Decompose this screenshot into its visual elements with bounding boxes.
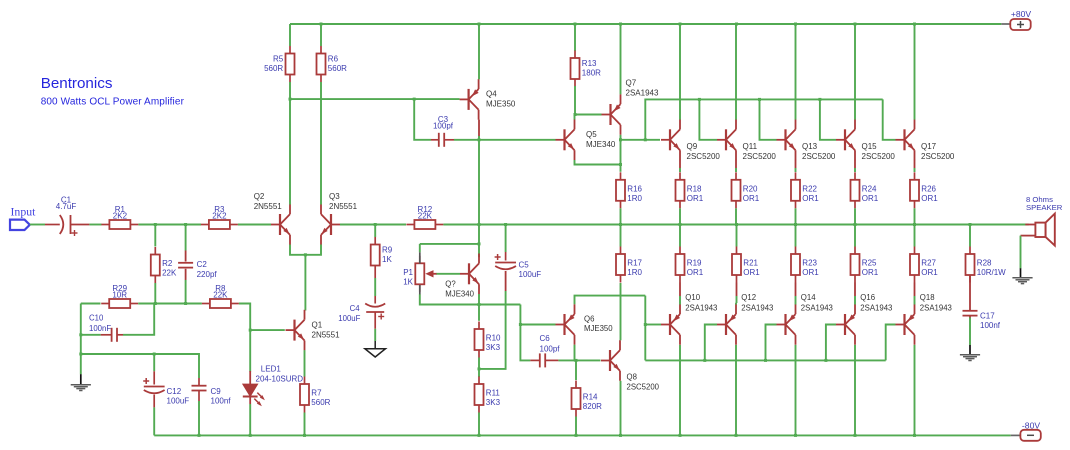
transistor Q11 bbox=[717, 120, 776, 161]
wire C3 left bbox=[414, 99, 431, 140]
wire Q17 emitter bbox=[914, 168, 916, 172]
wire Q16 emitter bbox=[854, 303, 856, 305]
wire Q6 collector bbox=[575, 345, 577, 361]
wire Q8 emitter bbox=[620, 381, 622, 436]
wire to Q4 base bbox=[290, 98, 460, 100]
svg-text:100uF: 100uF bbox=[338, 314, 360, 323]
capacitor C6 leads bbox=[530, 359, 558, 361]
wire Q11 emitter res bottom bbox=[735, 208, 737, 224]
wire R25 top bbox=[854, 225, 856, 247]
wire R10 bottom bbox=[478, 358, 480, 369]
svg-text:C2: C2 bbox=[197, 260, 208, 269]
svg-text:3K3: 3K3 bbox=[486, 343, 501, 352]
wire R12 to VAS node bbox=[443, 224, 479, 226]
svg-text:Q9: Q9 bbox=[687, 142, 698, 151]
junction bottom rail LED bbox=[249, 434, 252, 437]
wire P1 top lead bbox=[419, 244, 421, 252]
wire LED column bbox=[249, 330, 251, 371]
wire C10 left bbox=[80, 304, 82, 335]
capacitor C5 bbox=[495, 254, 542, 279]
svg-text:100nf: 100nf bbox=[211, 397, 232, 406]
svg-text:OR1: OR1 bbox=[743, 268, 760, 277]
junction top rail Q11 collector bbox=[735, 23, 738, 26]
wire Q16 collector bbox=[854, 345, 856, 436]
capacitor C5 top lead red bbox=[505, 252, 507, 261]
wire P1 top bbox=[420, 243, 479, 245]
svg-text:1K: 1K bbox=[382, 255, 392, 264]
svg-text:100pf: 100pf bbox=[433, 122, 454, 131]
wire Q15 emitter bbox=[854, 168, 856, 172]
junction bottom rail C9 bbox=[198, 434, 201, 437]
wire R17 top bbox=[620, 225, 622, 247]
junction bottom rail R7 bbox=[303, 434, 306, 437]
label Q12 bbox=[741, 293, 773, 313]
svg-text:1R0: 1R0 bbox=[627, 268, 642, 277]
wire C5 top bbox=[505, 225, 507, 253]
wire R10 top bbox=[478, 305, 480, 321]
svg-text:2SA1943: 2SA1943 bbox=[741, 304, 773, 313]
wire R3 to Q2 base bbox=[238, 224, 271, 226]
junction output rail R20 R21 bbox=[735, 223, 738, 226]
junction R9 top bbox=[374, 223, 377, 226]
label Q6 bbox=[584, 315, 613, 333]
junction lower bias rail Q16 bbox=[824, 359, 827, 362]
svg-text:R27: R27 bbox=[921, 259, 936, 268]
transistor Q10 bbox=[661, 304, 680, 345]
junction Q10 base bbox=[644, 323, 647, 326]
wire R21 bottom red bbox=[736, 283, 738, 297]
capacitor C9 top lead red bbox=[198, 378, 200, 386]
wire R25 bottom red bbox=[854, 283, 856, 297]
speaker SP1 bbox=[1026, 195, 1063, 246]
wire gnd to C12 C9 bbox=[81, 354, 199, 378]
svg-text:Q15: Q15 bbox=[862, 142, 878, 151]
wire Q12 emitter bbox=[735, 303, 737, 305]
junction output rail R16 R17 bbox=[619, 223, 622, 226]
wire C1 to R1 bbox=[89, 224, 101, 226]
wire R14 top bbox=[575, 360, 577, 380]
svg-text:MJE340: MJE340 bbox=[586, 140, 616, 149]
svg-text:C6: C6 bbox=[540, 334, 551, 343]
wire base riser Q18 bbox=[886, 325, 896, 361]
junction bottom rail Q14 bbox=[794, 434, 797, 437]
wire R7 to bottom rail bbox=[304, 413, 306, 436]
svg-text:OR1: OR1 bbox=[687, 194, 704, 203]
resistor R1 bbox=[101, 205, 138, 229]
wire Q3 collector bbox=[320, 99, 322, 204]
svg-text:R10: R10 bbox=[486, 334, 501, 343]
svg-text:Q5: Q5 bbox=[586, 130, 597, 139]
transistor Q14 bbox=[777, 304, 796, 345]
capacitor C5 bottom lead red bbox=[505, 271, 507, 291]
junction emitter join bbox=[304, 253, 307, 256]
svg-text:R14: R14 bbox=[583, 393, 598, 402]
wire Q3 base to R12 bbox=[340, 224, 406, 226]
capacitor C4 top lead red bbox=[374, 296, 376, 304]
svg-text:R17: R17 bbox=[627, 259, 642, 268]
transistor Q7 bias bbox=[460, 254, 479, 295]
wire Q10 emitter bbox=[679, 303, 681, 305]
P1 bottom pin gray bbox=[419, 285, 421, 295]
svg-text:2SC5200: 2SC5200 bbox=[687, 152, 721, 161]
capacitor C2 top lead red bbox=[185, 251, 187, 262]
capacitor C3 bbox=[433, 115, 454, 147]
resistor R22 bbox=[791, 172, 819, 208]
junction Q5 emitter join bbox=[619, 163, 622, 166]
resistor R12 bbox=[406, 205, 443, 229]
svg-text:Q4: Q4 bbox=[486, 90, 497, 99]
junction bottom rail Q10 bbox=[679, 434, 682, 437]
wire Q15 emitter res bottom bbox=[854, 208, 856, 224]
svg-text:R26: R26 bbox=[921, 185, 936, 194]
capacitor C17 bbox=[963, 311, 1001, 330]
wire R27 bottom red bbox=[914, 283, 916, 297]
input port bbox=[10, 205, 36, 231]
junction R5 bottom bbox=[289, 98, 292, 101]
junction bottom rail R11 bbox=[478, 434, 481, 437]
ground C17 bbox=[960, 355, 980, 361]
label Q8 bbox=[627, 373, 660, 392]
wire Q9 base bbox=[621, 139, 661, 141]
wire C5 bottom bbox=[479, 291, 506, 369]
wire Q10 collector bbox=[679, 345, 681, 436]
junction output rail R18 R19 bbox=[679, 223, 682, 226]
resistor R14 bbox=[572, 381, 603, 417]
wire C17 to ground bbox=[969, 318, 971, 346]
svg-text:Q6: Q6 bbox=[584, 315, 594, 324]
junction top rail Q9 collector bbox=[679, 23, 682, 26]
junction bias rail Q15 bbox=[818, 98, 821, 101]
transistor Q7 driver bbox=[602, 79, 659, 135]
svg-text:800 Watts OCL Power Amplifier: 800 Watts OCL Power Amplifier bbox=[41, 97, 185, 108]
svg-text:Q14: Q14 bbox=[801, 293, 816, 302]
resistor R11 bbox=[475, 377, 501, 413]
capacitor C2 bottom lead red bbox=[185, 269, 187, 280]
wire speaker to ground bbox=[1020, 236, 1022, 269]
transistor Q8 bbox=[601, 340, 620, 381]
junction lower bias rail Q14 bbox=[764, 359, 767, 362]
svg-text:22K: 22K bbox=[213, 291, 228, 300]
transistor Q5 bbox=[556, 120, 616, 161]
svg-text:2N5551: 2N5551 bbox=[254, 202, 283, 211]
junction top rail Q13 collector bbox=[794, 23, 797, 26]
wire R27 top bbox=[914, 225, 916, 247]
capacitor C12 top lead red bbox=[153, 371, 155, 384]
wire Q6 emitter bbox=[575, 296, 646, 305]
svg-text:R19: R19 bbox=[687, 259, 702, 268]
wire R13 node to Q7 base bbox=[575, 114, 602, 116]
resistor R13 bbox=[571, 51, 602, 87]
svg-text:100pf: 100pf bbox=[540, 345, 561, 354]
svg-text:R11: R11 bbox=[486, 389, 501, 398]
wire Q11 collector bbox=[735, 24, 737, 120]
wire C6 left bbox=[520, 325, 530, 361]
svg-text:1R0: 1R0 bbox=[627, 194, 642, 203]
wire Q13 emitter bbox=[795, 168, 797, 172]
label C6 bbox=[540, 334, 561, 354]
svg-text:Q16: Q16 bbox=[860, 293, 875, 302]
wire R11 top bbox=[478, 369, 480, 377]
junction VAS top bbox=[478, 138, 481, 141]
svg-text:Q12: Q12 bbox=[741, 293, 756, 302]
svg-text:2SC5200: 2SC5200 bbox=[627, 383, 660, 392]
svg-text:Q17: Q17 bbox=[921, 142, 937, 151]
svg-text:2SC5200: 2SC5200 bbox=[802, 152, 836, 161]
svg-text:2K2: 2K2 bbox=[212, 212, 227, 221]
svg-text:R7: R7 bbox=[311, 389, 322, 398]
transistor Q3 bbox=[321, 192, 358, 245]
svg-text:560R: 560R bbox=[311, 398, 330, 407]
svg-text:R25: R25 bbox=[862, 259, 877, 268]
top rail +80V bbox=[290, 23, 1001, 25]
wire R6 bottom bbox=[320, 82, 322, 99]
resistor R29 bbox=[101, 284, 138, 308]
transistor Q2 bbox=[254, 192, 290, 245]
svg-text:Q3: Q3 bbox=[329, 192, 340, 201]
wire C2 top lead bbox=[185, 225, 187, 251]
junction R13 Q5 collector bbox=[574, 113, 577, 116]
svg-text:OR1: OR1 bbox=[862, 194, 879, 203]
wire Q18 emitter bbox=[914, 303, 916, 305]
svg-text:100uF: 100uF bbox=[167, 397, 190, 406]
wire base drop Q17 bbox=[883, 99, 896, 139]
svg-text:2K2: 2K2 bbox=[113, 212, 128, 221]
svg-text:2SA1943: 2SA1943 bbox=[626, 89, 659, 98]
wire Q14 emitter bbox=[795, 303, 797, 305]
svg-text:OR1: OR1 bbox=[687, 268, 704, 277]
wire to Q6 base bbox=[520, 305, 555, 325]
wire R21 bottom bbox=[736, 296, 738, 303]
wire base riser Q14 bbox=[766, 325, 777, 361]
capacitor C12 bbox=[143, 378, 189, 406]
capacitor C17 bottom lead red bbox=[969, 316, 971, 319]
resistor R19 bbox=[676, 247, 704, 283]
wire base riser Q16 bbox=[826, 325, 836, 361]
svg-text:1K: 1K bbox=[403, 277, 413, 286]
label C10 bbox=[89, 314, 111, 334]
wire Q4 collector down bbox=[478, 136, 480, 140]
junction output rail R24 R25 bbox=[854, 223, 857, 226]
wire C12 to bottom rail bbox=[153, 407, 155, 435]
svg-text:10R/1W: 10R/1W bbox=[977, 268, 1006, 277]
junction bottom rail Q8 emitter bbox=[619, 434, 622, 437]
svg-text:R28: R28 bbox=[977, 259, 992, 268]
wire Q10 base riser bbox=[644, 296, 646, 361]
wire Q1 emitter to R7 bbox=[304, 350, 306, 376]
power -80V bbox=[1011, 420, 1041, 441]
svg-text:OR1: OR1 bbox=[921, 268, 938, 277]
svg-text:Input: Input bbox=[11, 205, 37, 219]
capacitor C10 leads bbox=[101, 334, 123, 336]
svg-text:3K3: 3K3 bbox=[486, 398, 501, 407]
label C4 bbox=[338, 304, 360, 323]
junction P1 top tap bbox=[478, 242, 481, 245]
svg-text:2SA1943: 2SA1943 bbox=[685, 304, 717, 313]
wire R19 top bbox=[679, 225, 681, 247]
transistor Q16 bbox=[836, 304, 855, 345]
wire ground column top bbox=[81, 303, 101, 305]
svg-text:R22: R22 bbox=[802, 185, 817, 194]
wire C10 right to R2 node bbox=[123, 304, 154, 335]
junction C2 bottom bbox=[184, 302, 187, 305]
wire Q13 collector bbox=[795, 24, 797, 120]
wire Q18 collector bbox=[914, 345, 916, 436]
wire Q15 emitter red pin bbox=[854, 160, 856, 168]
title bbox=[41, 75, 185, 108]
capacitor C2 bbox=[178, 260, 217, 279]
capacitor C6 bbox=[540, 353, 545, 367]
wire Q9 emitter res bottom bbox=[679, 208, 681, 224]
junction R2 bottom bbox=[154, 302, 157, 305]
junction C3 tap bbox=[413, 98, 416, 101]
resistor R5 bbox=[264, 46, 294, 82]
capacitor C4 bbox=[365, 304, 385, 320]
wire R28 to C17 red bbox=[969, 275, 971, 310]
resistor R6 bbox=[317, 46, 348, 82]
svg-text:2SA1943: 2SA1943 bbox=[801, 304, 833, 313]
wire R9 top bbox=[374, 225, 376, 238]
wire base drop Q13 bbox=[760, 99, 777, 139]
junction bottom rail Q12 bbox=[735, 434, 738, 437]
svg-text:Q8: Q8 bbox=[627, 373, 637, 382]
transistor Q1 bbox=[286, 310, 341, 351]
wire C6 right bbox=[558, 359, 600, 361]
transistor Q15 bbox=[836, 120, 895, 161]
junction lower bias rail Q12 bbox=[703, 359, 706, 362]
speaker pins bbox=[1021, 225, 1036, 236]
svg-text:OR1: OR1 bbox=[921, 194, 938, 203]
label Q18 bbox=[920, 293, 952, 313]
svg-text:Q7: Q7 bbox=[626, 79, 637, 88]
svg-text:560R: 560R bbox=[328, 64, 347, 73]
transistor Q17 bbox=[896, 120, 955, 161]
wire R28 top bbox=[969, 225, 971, 247]
junction output rail R28 top bbox=[969, 223, 972, 226]
wire Q14 collector bbox=[795, 345, 797, 436]
wire C2 bottom lead bbox=[185, 280, 187, 304]
signal ground triangle bbox=[365, 341, 386, 357]
junction top rail R13 top bbox=[574, 23, 577, 26]
wire Q13 emitter res bottom bbox=[795, 208, 797, 224]
resistor R16 bbox=[616, 172, 643, 208]
junction output rail C5 top bbox=[504, 223, 507, 226]
transistor Q18 bbox=[896, 304, 915, 345]
wire Q4 collector red pin bbox=[478, 120, 480, 137]
label Q14 bbox=[801, 293, 833, 313]
bottom rail -80V bbox=[154, 434, 1011, 436]
wire P1 bottom bbox=[420, 294, 521, 304]
wire R23 top bbox=[795, 225, 797, 247]
wire tail to Q1 bbox=[304, 255, 306, 311]
svg-text:C10: C10 bbox=[89, 314, 104, 323]
capacitor C4 bottom lead red bbox=[374, 312, 376, 329]
resistor R27 bbox=[910, 247, 938, 283]
junction Q9 base tap bbox=[619, 138, 622, 141]
wire input to C1 bbox=[30, 224, 45, 226]
svg-text:SPEAKER: SPEAKER bbox=[1026, 203, 1063, 212]
transistor Q12 bbox=[717, 304, 736, 345]
resistor R7 bbox=[300, 377, 331, 413]
wire Q13 emitter red pin bbox=[795, 160, 797, 168]
svg-text:C17: C17 bbox=[980, 312, 995, 321]
wire R5 top bbox=[289, 24, 291, 46]
junction bias rail drop Q9 bbox=[644, 138, 647, 141]
lower bias rail bbox=[645, 359, 885, 361]
wire Q2 collector bbox=[289, 99, 291, 204]
label Q10 bbox=[685, 293, 717, 313]
wire Q1 base bbox=[250, 329, 285, 331]
LED LED1 bbox=[243, 365, 304, 407]
ground speaker bbox=[1012, 278, 1032, 284]
wire Q5 emitter bbox=[575, 160, 621, 165]
svg-text:Q1: Q1 bbox=[312, 321, 323, 330]
svg-text:Q11: Q11 bbox=[743, 142, 758, 151]
wire R11 bottom bbox=[478, 413, 480, 436]
wire C4 to ground bbox=[374, 329, 376, 341]
wire R13 top bbox=[574, 24, 576, 51]
transistor Q6 bbox=[556, 304, 575, 345]
wire R8 to LED column bbox=[239, 304, 250, 331]
svg-text:Bentronics: Bentronics bbox=[41, 75, 113, 92]
wire wiper green bbox=[437, 273, 461, 275]
svg-text:+80V: +80V bbox=[1011, 9, 1032, 19]
wire R2 top lead bbox=[154, 225, 156, 247]
wire base drop Q15 bbox=[820, 99, 836, 139]
capacitor C10 bbox=[112, 328, 117, 342]
svg-text:2SC5200: 2SC5200 bbox=[862, 152, 896, 161]
junction top rail Q4 emitter bbox=[478, 23, 481, 26]
resistor R10 bbox=[475, 322, 502, 358]
wire R9 to C4 bbox=[374, 278, 376, 296]
svg-text:2SC5200: 2SC5200 bbox=[743, 152, 777, 161]
junction C12 top bbox=[153, 353, 156, 356]
wire base drop Q11 bbox=[699, 99, 717, 139]
svg-text:C4: C4 bbox=[350, 304, 361, 313]
wire Q5 collector corner bbox=[574, 115, 576, 120]
wire Q17 emitter res bottom bbox=[914, 208, 916, 224]
wire R16 bottom bbox=[620, 208, 622, 224]
svg-text:220pf: 220pf bbox=[197, 270, 218, 279]
resistor R26 bbox=[910, 172, 938, 208]
wire Q2 emitter bbox=[290, 245, 321, 255]
junction C10 left bbox=[79, 333, 82, 336]
resistor R24 bbox=[851, 172, 879, 208]
wire R13 bottom bbox=[574, 86, 576, 115]
resistor R28 bbox=[966, 247, 1007, 283]
svg-text:10R: 10R bbox=[112, 291, 127, 300]
wire C3 to Q5 base bbox=[454, 139, 556, 141]
capacitor C9 bottom lead red bbox=[198, 391, 200, 402]
svg-text:OR1: OR1 bbox=[743, 194, 760, 203]
svg-text:C12: C12 bbox=[167, 387, 182, 396]
junction top rail Q15 collector bbox=[854, 23, 857, 26]
svg-text:2SA1943: 2SA1943 bbox=[920, 304, 952, 313]
svg-text:R21: R21 bbox=[743, 259, 758, 268]
svg-text:180R: 180R bbox=[582, 68, 601, 77]
ground bbox=[71, 385, 91, 391]
capacitor C1 bbox=[56, 196, 78, 237]
transistor Q9 bbox=[661, 120, 720, 161]
svg-text:100uF: 100uF bbox=[519, 270, 542, 279]
junction top rail R6 top bbox=[320, 23, 323, 26]
resistor R25 bbox=[851, 247, 879, 283]
wire R6 top bbox=[320, 24, 322, 46]
svg-text:R18: R18 bbox=[687, 185, 702, 194]
junction VAS rail bbox=[478, 223, 481, 226]
junction top rail Q7 emitter bbox=[619, 23, 622, 26]
junction Q1 base tap bbox=[249, 329, 252, 332]
wire R19 bottom red bbox=[679, 283, 681, 297]
